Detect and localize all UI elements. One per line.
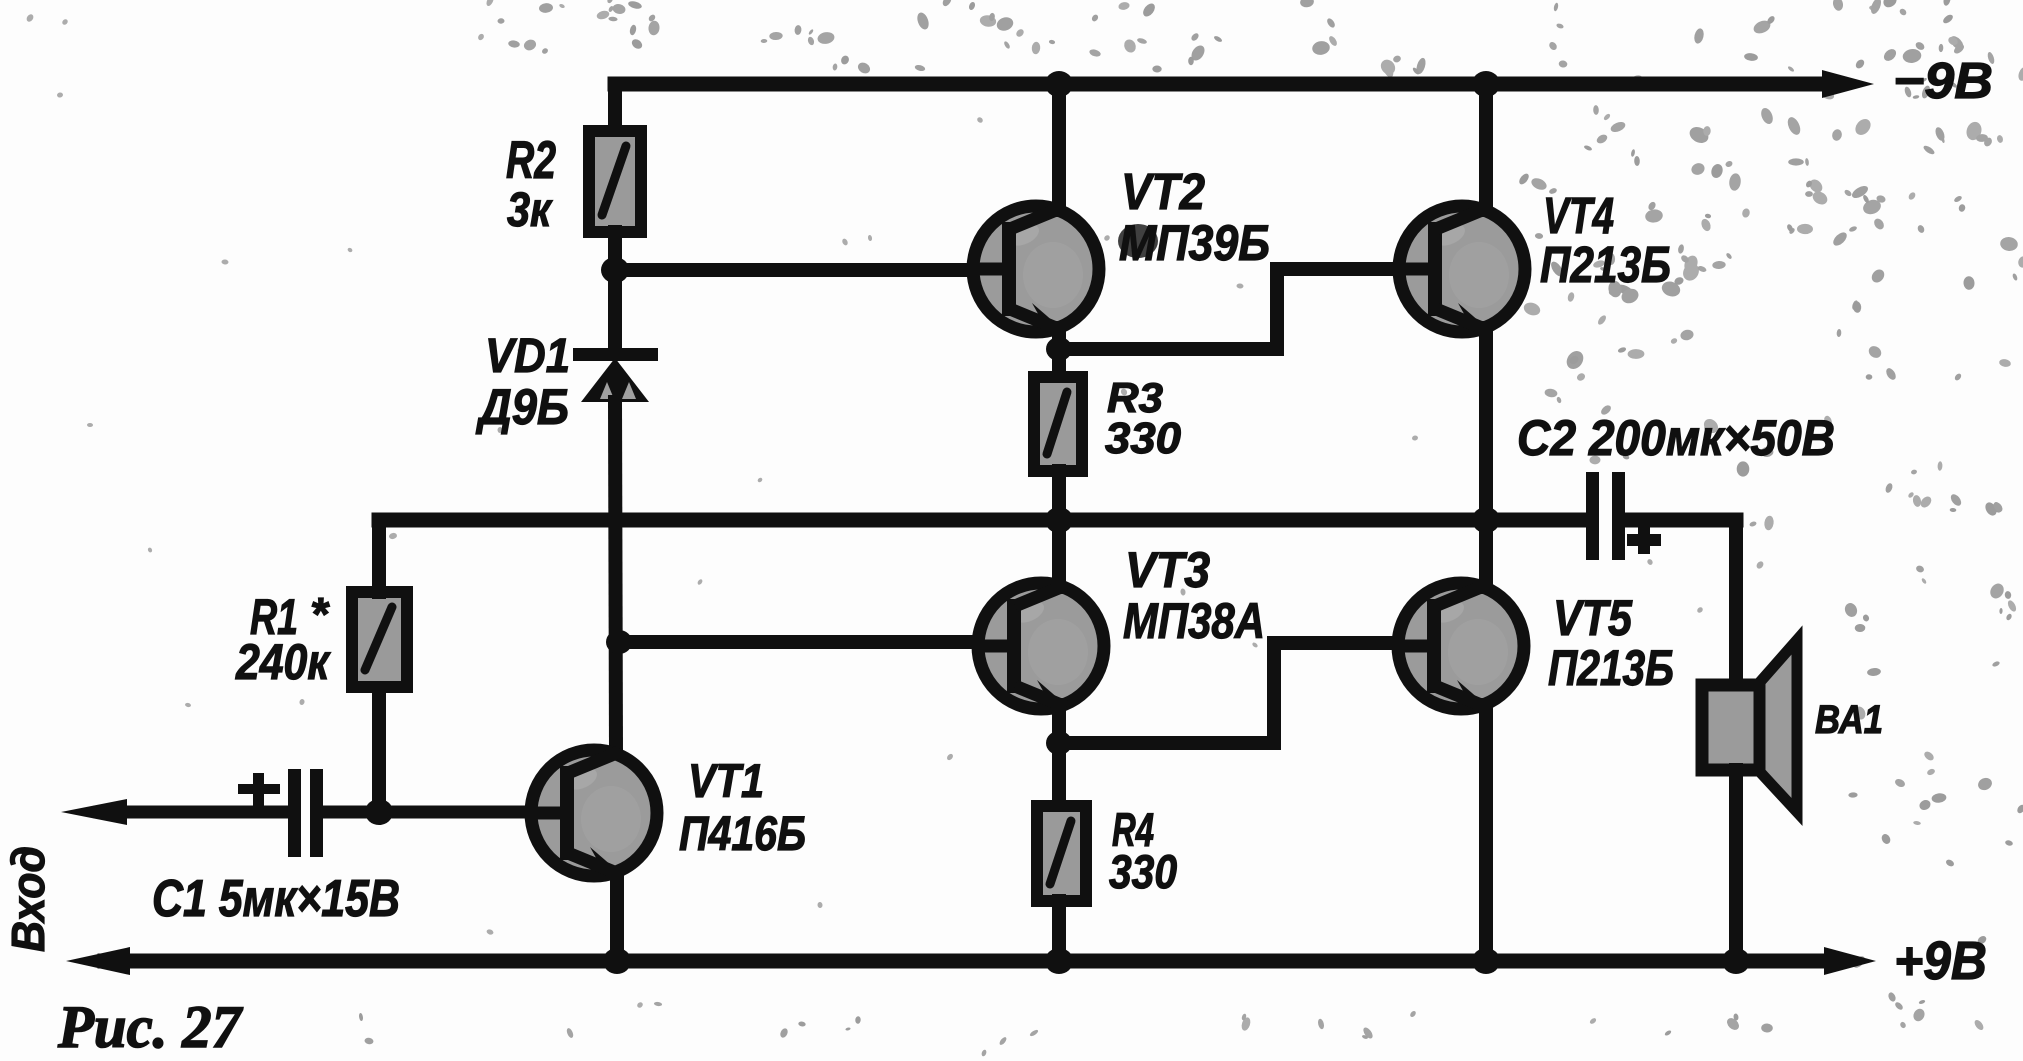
svg-text:330: 330 — [1105, 414, 1182, 463]
node input/R1/VT1-base junction — [365, 799, 393, 825]
resistor R1 — [352, 592, 407, 687]
wire VT2 emitter node to VT4 base (jog) — [1059, 269, 1397, 349]
arrowhead input — [61, 799, 127, 825]
arrowhead +9V left — [66, 947, 130, 975]
wire VT4 collector to top rail — [1479, 84, 1493, 210]
resistor R4 — [1037, 806, 1086, 901]
node VT1-collector / VT3-base junction — [606, 630, 632, 654]
wire VT3 collector to output rail — [1052, 520, 1066, 587]
wire top rail corner to R2 — [608, 84, 622, 136]
node VT4/VT5/output junction — [1472, 507, 1500, 533]
wire junction to VT3 base — [619, 635, 978, 649]
svg-text:Вход: Вход — [2, 846, 54, 952]
wire VT2 collector to top rail — [1052, 84, 1066, 210]
wire VT3 emitter to node — [1052, 705, 1066, 743]
wire C1 to input node — [323, 806, 379, 819]
arrowhead +9V right — [1824, 947, 1876, 975]
svg-text:R2: R2 — [506, 131, 556, 190]
node VT2 emitter / R3 junction — [1046, 337, 1072, 361]
svg-text:−9В: −9В — [1893, 52, 1993, 109]
wire output rail right segment C2 to corner — [1624, 513, 1736, 528]
svg-text:+9В: +9В — [1894, 931, 1987, 991]
svg-text:П416Б: П416Б — [679, 808, 806, 861]
node R3/VT3 on output rail — [1045, 507, 1073, 533]
transistor VT5 — [1397, 583, 1524, 709]
wire VT4 emitter to output rail — [1479, 328, 1493, 520]
negative 9V top rail — [615, 77, 1830, 92]
positive 9V bottom rail — [105, 954, 1830, 969]
C2 polarity plus — [1627, 527, 1661, 554]
wire node to VD1 — [608, 270, 622, 352]
wire C2 to speaker corner — [1729, 520, 1743, 689]
transistor VT4 — [1398, 206, 1525, 332]
svg-text:C2 200мк×50В: C2 200мк×50В — [1517, 410, 1835, 466]
input wire arrow — [100, 806, 288, 819]
wire VT5 collector to output rail — [1479, 520, 1493, 587]
loudspeaker BA1 — [1702, 640, 1797, 812]
svg-text:VT5: VT5 — [1553, 590, 1633, 646]
svg-text:VD1: VD1 — [485, 330, 570, 383]
node VT2 collector on -9V rail — [1045, 71, 1073, 97]
wire node to VT2 base — [615, 263, 972, 277]
svg-text:330: 330 — [1109, 845, 1177, 898]
svg-text:VT2: VT2 — [1121, 163, 1205, 220]
svg-text:*: * — [310, 588, 330, 640]
diode VD1 — [573, 348, 658, 402]
svg-text:Д9Б: Д9Б — [475, 379, 569, 435]
capacitor C1 — [288, 769, 323, 857]
output rail (mid) — [379, 513, 1586, 528]
node VT4 collector on -9V rail — [1472, 71, 1500, 97]
arrowhead -9V — [1822, 70, 1874, 98]
svg-text:П213Б: П213Б — [1540, 236, 1671, 293]
node VT3 emitter / R4 junction — [1046, 731, 1072, 755]
node R2/VD1/VT2-base junction — [601, 257, 629, 283]
resistor R2 — [589, 131, 641, 232]
label Vkhod (input) — [2, 846, 54, 952]
svg-text:VT3: VT3 — [1125, 542, 1210, 598]
wire node to VT1 base — [379, 806, 530, 819]
C1 polarity plus — [238, 773, 280, 806]
node R4 on +9V rail — [1045, 948, 1073, 974]
svg-text:Рис. 27: Рис. 27 — [57, 994, 243, 1060]
resistor R3 — [1034, 377, 1082, 471]
label VT2 type MP39B — [1118, 224, 1158, 258]
svg-text:ВА1: ВА1 — [1815, 698, 1883, 742]
wire speaker to bottom rail — [1729, 770, 1743, 961]
node VT1 emitter on +9V rail — [603, 948, 631, 974]
wire R4 top lead — [1052, 743, 1066, 806]
wire VT1 emitter to bottom rail — [610, 873, 624, 961]
svg-text:C1 5мк×15В: C1 5мк×15В — [152, 870, 400, 928]
wire R1 bottom lead — [372, 687, 386, 812]
wire R3 bottom lead to output rail — [1052, 471, 1066, 520]
node speaker on +9V rail — [1722, 948, 1750, 974]
svg-text:МП38А: МП38А — [1123, 593, 1265, 649]
svg-text:МП39Б: МП39Б — [1119, 215, 1270, 271]
wire VT5 emitter to bottom rail — [1479, 705, 1493, 961]
wire R1 top lead to output rail corner — [372, 520, 386, 592]
svg-text:П213Б: П213Б — [1548, 640, 1674, 696]
capacitor C2 — [1586, 472, 1625, 560]
transistor VT1 — [530, 750, 657, 876]
wire R4 bottom lead to bottom rail — [1052, 901, 1066, 961]
transistor VT3 — [977, 583, 1104, 709]
wire R2 bottom to node — [608, 232, 622, 270]
transistor VT2 — [972, 206, 1099, 332]
wire R3 top lead — [1052, 349, 1066, 377]
svg-text:240к: 240к — [235, 634, 331, 690]
wire VT2 emitter to node — [1052, 328, 1066, 349]
wire VT3 emitter node to VT5 base (jog) — [1059, 643, 1397, 743]
node VT5 emitter on +9V rail — [1472, 948, 1500, 974]
wire VD1 to VT1 collector (crosses output rail) — [615, 402, 616, 752]
svg-text:3к: 3к — [507, 184, 553, 237]
svg-text:VT1: VT1 — [688, 754, 764, 807]
